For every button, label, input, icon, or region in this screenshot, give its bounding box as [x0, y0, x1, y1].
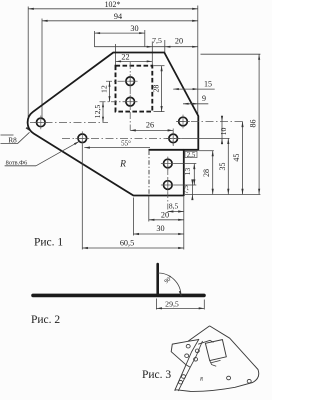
svg-text:35: 35	[218, 163, 227, 171]
extension x=148.8 down	[148, 197, 150, 222]
dashed rectangle opening 22x28	[116, 66, 153, 112]
svg-text:7,5: 7,5	[182, 185, 190, 194]
extension x=133.4 down	[132, 198, 134, 236]
plate outline (thick) with R8 rounded tip	[28, 53, 199, 196]
centerline H2 horizontal	[100, 101, 138, 103]
fig3 holes	[186, 344, 190, 348]
hole H3 (left tip)	[37, 118, 46, 127]
svg-text:Рис. 3: Рис. 3	[142, 369, 171, 381]
extension y=138.7 right	[182, 137, 230, 139]
centerline y=138.4 through H4 H5	[62, 137, 182, 139]
bottom edge segment y=149.8	[149, 149, 184, 151]
fig3 main plate outline	[177, 326, 259, 392]
svg-text:8отв.Ф6: 8отв.Ф6	[6, 159, 28, 166]
svg-text:26: 26	[146, 121, 154, 130]
svg-text:60,5: 60,5	[120, 238, 134, 247]
svg-text:R: R	[199, 378, 203, 383]
extension line hole H3 x=42	[41, 19, 43, 120]
svg-text:R: R	[119, 160, 126, 170]
svg-text:29,5: 29,5	[165, 300, 179, 309]
dimension 28 (rect)	[154, 65, 165, 67]
dimension 60,5	[82, 247, 184, 249]
svg-text:8,5: 8,5	[169, 201, 179, 210]
hole H1 (rect upper)	[126, 77, 135, 86]
centerline vertical through rect holes x=130.2	[129, 62, 131, 130]
svg-text:30: 30	[130, 24, 138, 33]
dimension 94	[42, 20, 198, 22]
55deg angle dimension	[84, 146, 150, 148]
svg-text:102*: 102*	[105, 0, 121, 9]
svg-text:10: 10	[219, 128, 228, 136]
svg-text:12: 12	[99, 85, 108, 93]
dimension 22	[116, 60, 153, 62]
dimension 8,5	[168, 211, 184, 213]
svg-text:Рис. 2: Рис. 2	[31, 314, 60, 326]
svg-text:55°: 55°	[121, 140, 131, 148]
dimension 13	[193, 164, 195, 186]
extension x=82.3 down	[81, 145, 83, 250]
svg-text:94: 94	[114, 12, 122, 21]
hole H2 (rect lower)	[126, 97, 135, 106]
dimension 10	[221, 116, 223, 145]
dimension 26	[130, 129, 173, 131]
dimension 102* overall width	[28, 8, 198, 10]
fig3 fold chevron under apex	[198, 340, 213, 344]
dimension 20 bottom	[149, 219, 184, 221]
dimension 7,5 vertical	[191, 181, 193, 199]
label R8 with leader	[1, 134, 14, 136]
extension line right edge x=197.8 (up)	[197, 6, 199, 117]
svg-text:R8: R8	[8, 136, 17, 144]
svg-text:45: 45	[232, 154, 241, 162]
extension x=164.8	[164, 40, 166, 53]
hole H4	[78, 134, 87, 143]
bar horizontal	[33, 294, 204, 298]
svg-text:Рис. 1: Рис. 1	[34, 237, 63, 249]
dimension 28	[212, 151, 214, 195]
svg-text:86: 86	[249, 120, 258, 128]
bend line x=149 dash-dot	[148, 151, 150, 196]
svg-text:90°: 90°	[163, 274, 174, 285]
hole H5	[169, 134, 178, 143]
centerline tip hole horizontal y=122.4	[30, 121, 108, 123]
centerline vertical H5 x=173.7	[172, 129, 174, 148]
extension y=185.0	[175, 184, 197, 186]
extension x=152.3	[151, 42, 153, 66]
extension x=115.5	[115, 44, 117, 66]
svg-text:12,5: 12,5	[93, 105, 102, 119]
hole H6 (right upper)	[179, 117, 188, 126]
svg-text:28: 28	[151, 85, 160, 93]
centerline vertical tab holes x=167.8	[167, 158, 169, 213]
extension line left tip x=28.2	[27, 7, 29, 118]
dimension 30 bottom	[133, 233, 183, 235]
dimension 12,5	[102, 102, 104, 123]
svg-text:20: 20	[175, 37, 183, 46]
fig3 flange band inner edges	[178, 339, 202, 391]
svg-text:13: 13	[183, 168, 192, 176]
dimension 9	[183, 103, 208, 105]
extension y=150.7 right	[199, 150, 214, 152]
svg-text:28: 28	[202, 169, 211, 177]
svg-text:20: 20	[161, 211, 169, 220]
90deg arc	[158, 273, 181, 296]
centerline horizontal H6 y=122.4	[177, 121, 244, 123]
extension y=194.5 right	[185, 194, 260, 196]
hole H8 (tab lower)	[164, 181, 173, 190]
dimension 35	[227, 138, 229, 194]
extension x=94.5	[94, 31, 96, 47]
svg-text:30: 30	[156, 224, 164, 233]
dimension 30 top	[95, 32, 145, 34]
fig3 square hole	[205, 340, 226, 361]
hole H7 (tab upper)	[164, 159, 173, 168]
extension x=144.8	[144, 30, 146, 47]
dimension 45	[242, 122, 244, 195]
dimension 29,5	[155, 299, 157, 310]
extension y=54.2 for 86	[201, 53, 261, 55]
extension x=183.8 down	[183, 197, 185, 250]
dimension 12	[109, 81, 111, 102]
dimension 86	[258, 54, 260, 194]
fig3 wall thickness at square bottom	[210, 360, 221, 366]
centerline H1 horizontal	[106, 80, 138, 82]
fig3 flange outer boundary (bulge + band to tip)	[171, 340, 199, 391]
extension y=164.4	[175, 163, 197, 165]
svg-text:22: 22	[121, 53, 129, 62]
dimension 2,5 (boxed)	[185, 151, 197, 157]
flange vertical	[156, 264, 159, 295]
dimension line 7,5 / 20 top	[95, 46, 198, 48]
svg-text:15: 15	[204, 80, 212, 89]
dimension 15	[173, 88, 215, 90]
svg-text:9: 9	[202, 94, 206, 103]
svg-text:7,5: 7,5	[152, 36, 162, 45]
svg-text:2,5: 2,5	[187, 152, 196, 159]
